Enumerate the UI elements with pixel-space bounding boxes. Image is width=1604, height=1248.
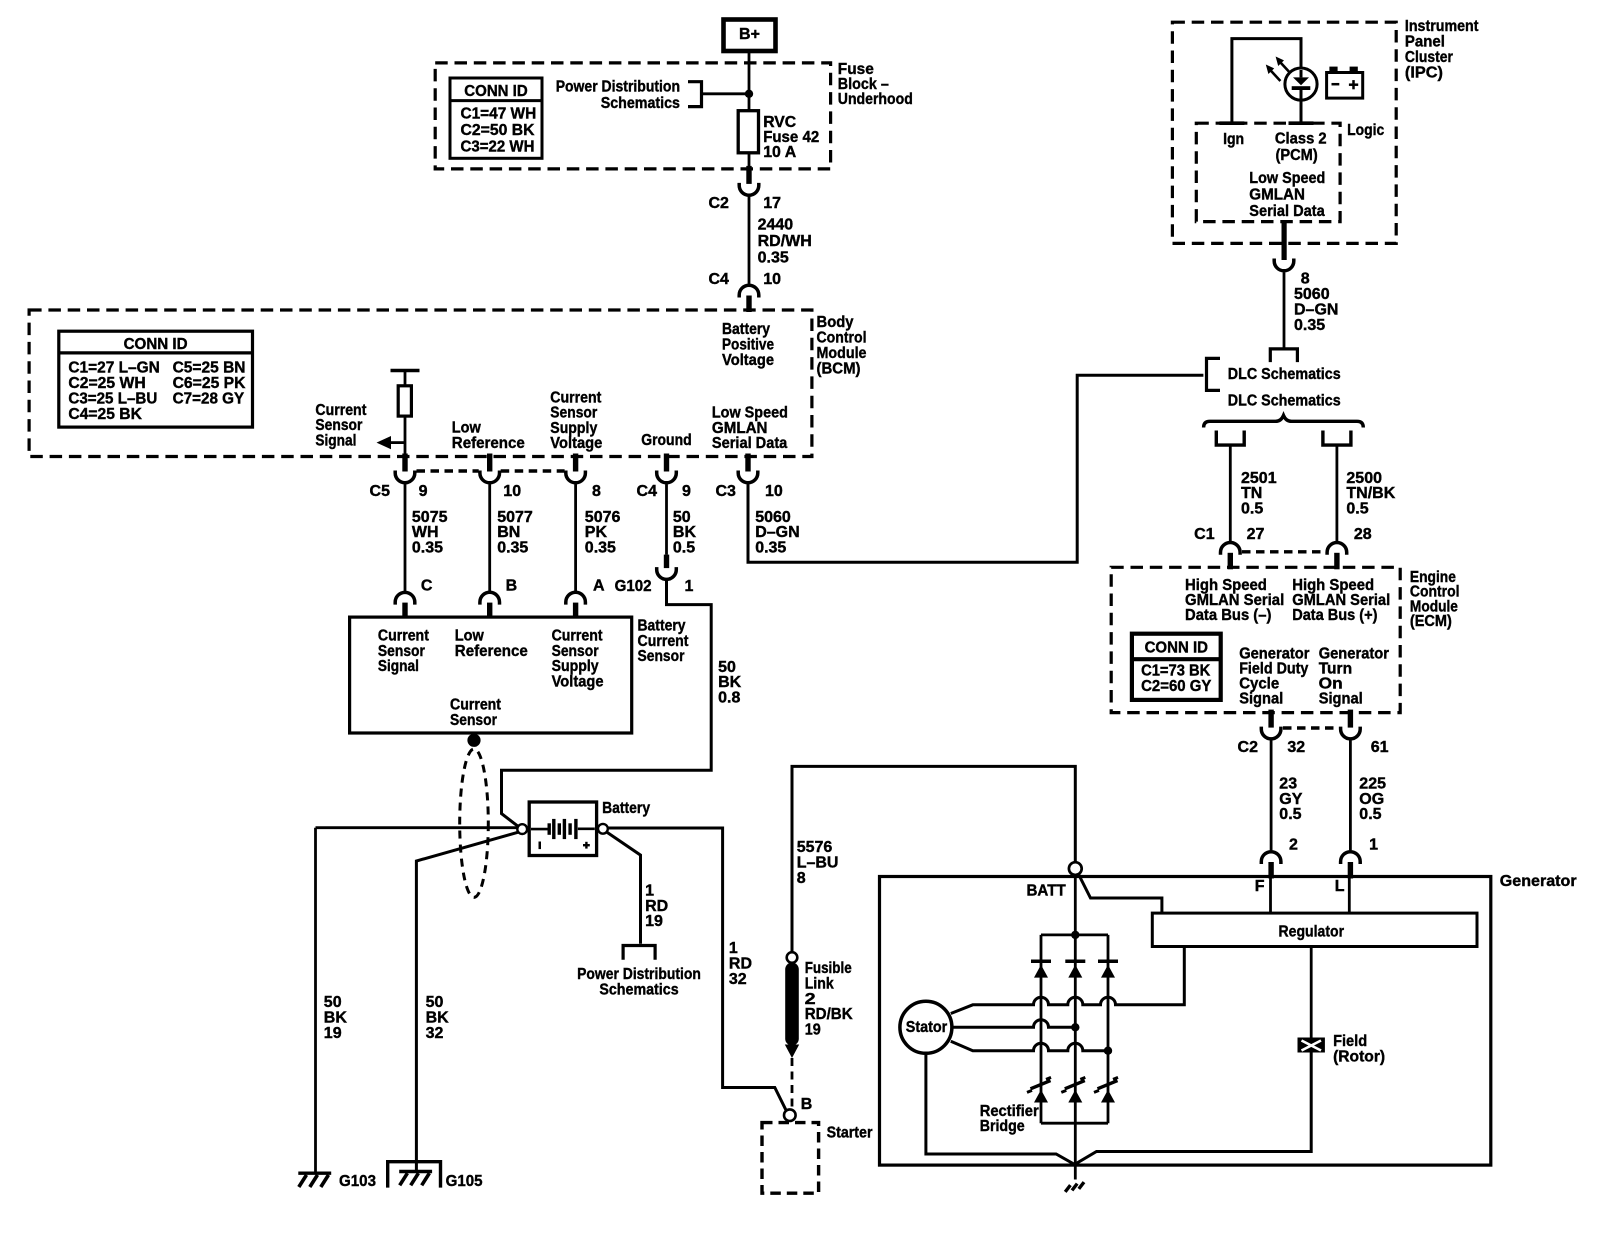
svg-text:C3=22 WH: C3=22 WH	[461, 138, 535, 155]
svg-text:Serial Data: Serial Data	[712, 435, 787, 452]
svg-text:19: 19	[324, 1025, 342, 1042]
svg-text:Class 2: Class 2	[1275, 131, 1327, 148]
svg-text:10 A: 10 A	[763, 144, 796, 161]
svg-text:0.5: 0.5	[1241, 501, 1263, 518]
svg-text:0.35: 0.35	[585, 540, 616, 557]
svg-text:D–GN: D–GN	[1294, 301, 1338, 318]
svg-text:Signal: Signal	[1319, 690, 1363, 707]
svg-text:Sensor: Sensor	[638, 648, 685, 665]
svg-text:19: 19	[645, 913, 663, 930]
svg-text:Generator: Generator	[1500, 873, 1577, 890]
svg-text:DLC Schematics: DLC Schematics	[1228, 393, 1341, 410]
svg-text:Power Distribution: Power Distribution	[556, 79, 680, 96]
svg-text:0.5: 0.5	[1359, 806, 1381, 823]
svg-text:(ECM): (ECM)	[1410, 613, 1452, 630]
svg-text:RD/WH: RD/WH	[758, 233, 812, 250]
svg-text:C4: C4	[708, 271, 729, 288]
svg-text:C1=47 WH: C1=47 WH	[461, 106, 537, 123]
svg-text:27: 27	[1247, 526, 1265, 543]
svg-text:B: B	[506, 577, 518, 594]
svg-text:B: B	[801, 1096, 813, 1113]
svg-text:28: 28	[1354, 526, 1372, 543]
svg-text:G103: G103	[339, 1173, 376, 1190]
svg-text:Signal: Signal	[315, 433, 356, 450]
svg-text:Control: Control	[817, 329, 867, 346]
svg-text:61: 61	[1371, 739, 1389, 756]
svg-text:32: 32	[729, 971, 747, 988]
svg-text:1: 1	[1369, 837, 1378, 854]
svg-text:2440: 2440	[758, 217, 794, 234]
svg-text:(Rotor): (Rotor)	[1333, 1049, 1385, 1066]
svg-text:F: F	[1255, 878, 1265, 895]
svg-text:B+: B+	[739, 26, 760, 43]
svg-text:0.5: 0.5	[1279, 806, 1301, 823]
svg-text:L: L	[1335, 878, 1345, 895]
svg-text:Starter: Starter	[827, 1125, 873, 1142]
svg-text:0.35: 0.35	[497, 540, 528, 557]
svg-text:0.5: 0.5	[1346, 501, 1368, 518]
svg-text:(BCM): (BCM)	[817, 360, 861, 377]
svg-text:(PCM): (PCM)	[1276, 147, 1318, 164]
svg-text:19: 19	[805, 1022, 821, 1039]
svg-text:C3: C3	[715, 483, 736, 500]
svg-text:C1: C1	[1194, 526, 1215, 543]
svg-text:9: 9	[419, 483, 428, 500]
svg-text:A: A	[593, 577, 605, 594]
svg-text:9: 9	[682, 483, 691, 500]
svg-text:Data Bus (–): Data Bus (–)	[1185, 607, 1271, 624]
svg-text:C4=25 BK: C4=25 BK	[68, 406, 142, 423]
svg-text:8: 8	[1301, 270, 1310, 287]
svg-text:C4: C4	[637, 483, 658, 500]
svg-text:DLC Schematics: DLC Schematics	[1228, 366, 1341, 383]
svg-text:0.5: 0.5	[673, 540, 695, 557]
svg-text:Battery: Battery	[602, 800, 650, 817]
svg-text:Schematics: Schematics	[599, 982, 678, 999]
svg-text:GMLAN: GMLAN	[1249, 187, 1305, 204]
svg-text:C2=60 GY: C2=60 GY	[1141, 678, 1212, 695]
svg-text:CONN ID: CONN ID	[124, 336, 188, 353]
svg-text:Panel: Panel	[1405, 34, 1445, 51]
svg-text:Underhood: Underhood	[838, 91, 913, 108]
svg-text:0.8: 0.8	[718, 690, 740, 707]
svg-text:8: 8	[592, 483, 601, 500]
svg-text:BATT: BATT	[1027, 883, 1066, 900]
svg-text:Data Bus (+): Data Bus (+)	[1292, 607, 1377, 624]
svg-text:32: 32	[426, 1025, 444, 1042]
svg-text:G105: G105	[446, 1173, 483, 1190]
svg-text:Signal: Signal	[1239, 690, 1283, 707]
svg-text:C2: C2	[708, 195, 729, 212]
svg-text:Sensor: Sensor	[450, 712, 497, 729]
svg-text:CONN ID: CONN ID	[1145, 640, 1208, 657]
svg-text:C7=28 GY: C7=28 GY	[173, 390, 245, 407]
svg-text:Reference: Reference	[455, 643, 528, 660]
svg-text:C2=50 BK: C2=50 BK	[461, 122, 535, 139]
svg-text:0.35: 0.35	[758, 249, 789, 266]
svg-text:Reference: Reference	[452, 435, 525, 452]
svg-text:0.35: 0.35	[1294, 317, 1325, 334]
svg-text:1: 1	[685, 578, 694, 595]
svg-text:Schematics: Schematics	[601, 95, 680, 112]
svg-text:TN/BK: TN/BK	[1346, 485, 1395, 502]
svg-text:Ign: Ign	[1223, 131, 1244, 148]
svg-text:Body: Body	[817, 314, 854, 331]
svg-text:Stator: Stator	[906, 1019, 948, 1036]
svg-text:0.35: 0.35	[755, 540, 786, 557]
svg-text:17: 17	[763, 195, 781, 212]
svg-text:10: 10	[503, 483, 521, 500]
svg-text:Module: Module	[817, 345, 867, 362]
svg-text:10: 10	[765, 483, 783, 500]
svg-text:Cluster: Cluster	[1405, 49, 1453, 66]
svg-text:32: 32	[1287, 739, 1305, 756]
svg-text:2: 2	[1289, 837, 1298, 854]
svg-text:Signal: Signal	[378, 658, 419, 675]
svg-text:Bridge: Bridge	[980, 1118, 1025, 1135]
svg-text:Regulator: Regulator	[1279, 923, 1345, 940]
svg-text:8: 8	[797, 870, 806, 887]
svg-text:(IPC): (IPC)	[1405, 65, 1443, 82]
svg-text:Voltage: Voltage	[550, 435, 602, 452]
svg-text:C5: C5	[370, 483, 391, 500]
svg-text:Low Speed: Low Speed	[1249, 170, 1325, 187]
svg-text:G102: G102	[615, 578, 652, 595]
svg-text:CONN ID: CONN ID	[464, 83, 527, 100]
svg-text:Logic: Logic	[1347, 122, 1384, 139]
svg-text:C: C	[421, 577, 433, 594]
svg-text:Voltage: Voltage	[552, 673, 604, 690]
svg-text:10: 10	[763, 271, 781, 288]
svg-text:C2: C2	[1238, 739, 1259, 756]
svg-text:TN: TN	[1241, 485, 1262, 502]
svg-text:Serial Data: Serial Data	[1249, 203, 1324, 220]
svg-text:Ground: Ground	[641, 432, 692, 449]
svg-text:Voltage: Voltage	[722, 352, 774, 369]
svg-text:0.35: 0.35	[412, 540, 443, 557]
